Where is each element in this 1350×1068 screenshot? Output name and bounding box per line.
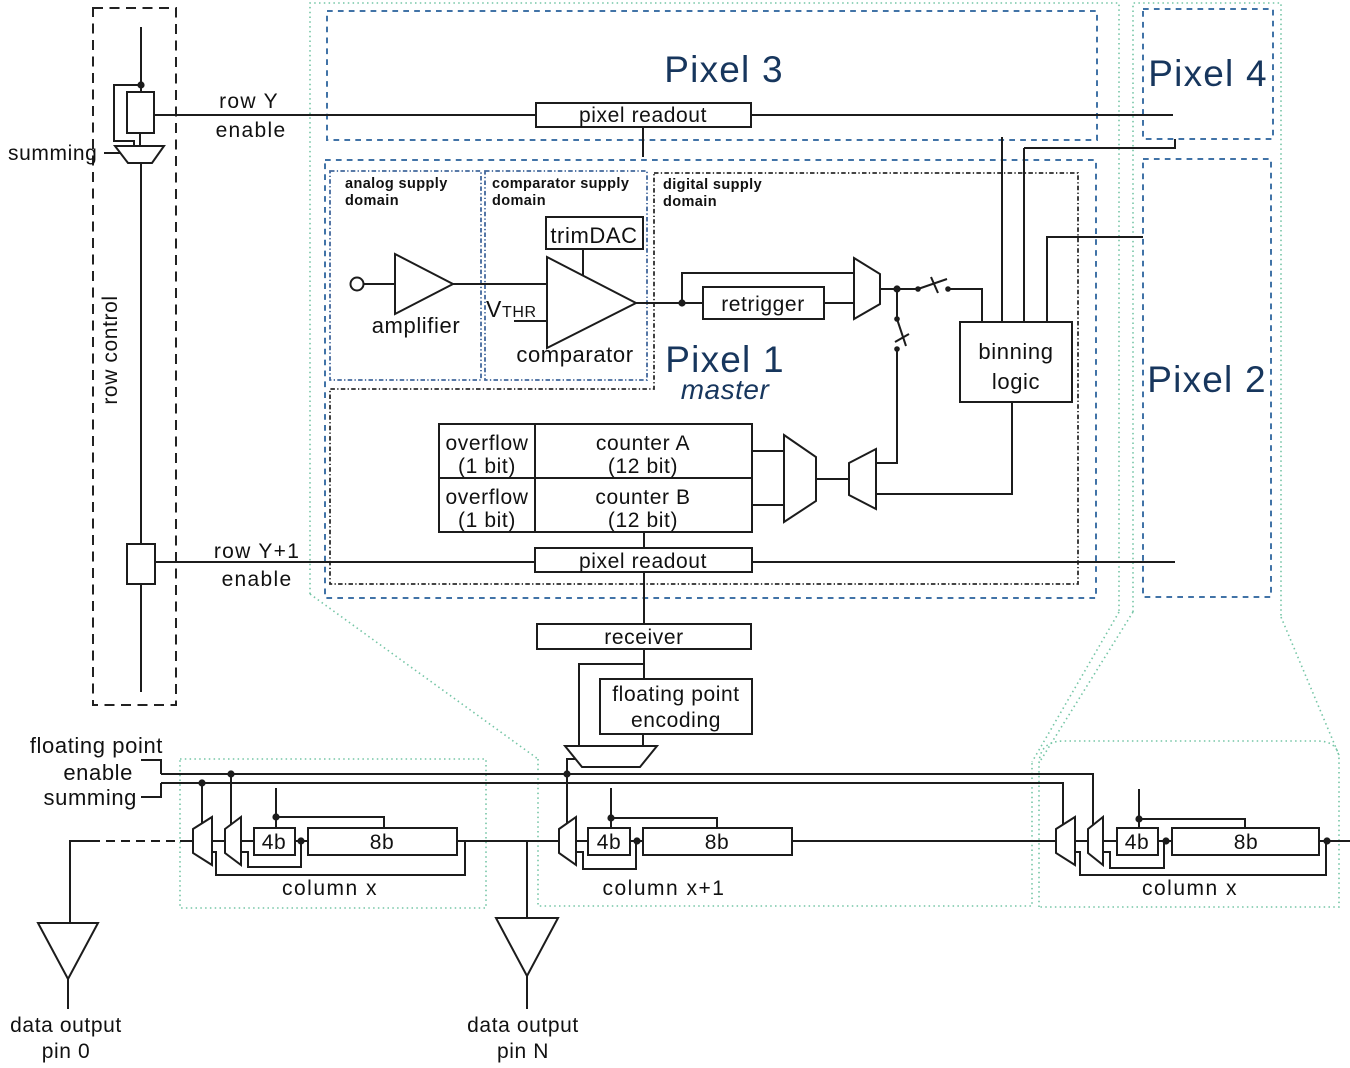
wire row control top vertical — [140, 27, 142, 92]
wire receiver output — [643, 649, 645, 679]
comparator supply domain dash-dot box — [485, 171, 647, 380]
svg-text:row control: row control — [99, 295, 122, 404]
wire binning logic output to counter mux — [876, 402, 1012, 494]
wire row Y enable left — [154, 114, 536, 116]
svg-text:receiver: receiver — [604, 626, 684, 649]
svg-text:retrigger: retrigger — [721, 293, 805, 316]
svg-text:enable: enable — [216, 119, 287, 142]
svg-text:row Y+1: row Y+1 — [214, 540, 300, 563]
svg-text:Pixel 3: Pixel 3 — [664, 49, 783, 90]
wire pad to amplifier — [364, 283, 395, 285]
wire 4b select stub — [275, 788, 277, 828]
wire column x long bypass — [212, 841, 465, 875]
wire mux1 to mux2 right column — [1075, 840, 1088, 842]
svg-text:comparator supply: comparator supply — [492, 176, 629, 192]
Pixel 4 dashed box — [1143, 9, 1273, 139]
node fp enable junction — [563, 770, 570, 777]
receiver box — [537, 624, 751, 649]
mux column x enable — [225, 817, 241, 865]
wire retrigger output — [824, 302, 854, 304]
wire data output pin0 elbow — [70, 841, 91, 923]
svg-text:encoding: encoding — [631, 709, 721, 732]
svg-text:column x: column x — [1142, 877, 1238, 900]
svg-text:amplifier: amplifier — [372, 313, 461, 338]
demux counter route — [849, 449, 876, 509]
wire counter A output — [752, 450, 784, 452]
wire mux to 4b column x+1 — [576, 840, 588, 842]
zoom bracket diagonal middle-left — [1032, 612, 1119, 762]
svg-text:pixel readout: pixel readout — [579, 104, 707, 127]
row Y+1 driver box — [127, 544, 155, 584]
svg-text:data output: data output — [467, 1014, 579, 1037]
svg-text:logic: logic — [992, 369, 1040, 394]
digital supply domain dash-dot L-shape — [330, 173, 1078, 584]
floating point encoding box — [600, 679, 752, 734]
node right column output junction — [1323, 837, 1330, 844]
wire counter B output — [752, 504, 784, 506]
wire counter mux link — [816, 478, 849, 480]
wire row Y+1 enable left — [155, 561, 535, 563]
zoom bracket dotted outline around Pixel 4 and Pixel 2 — [1133, 3, 1281, 617]
binning logic box — [960, 322, 1072, 402]
wire select to 8b right column — [1139, 819, 1245, 828]
wire summing bus — [161, 783, 1063, 826]
wire column x output — [457, 840, 559, 842]
node 4b output junction column x+1 — [633, 837, 640, 844]
wire select to 8b — [276, 817, 384, 828]
svg-text:8b: 8b — [1234, 831, 1259, 854]
column x dotted box (left) — [180, 759, 486, 908]
mux column x+1 — [559, 817, 576, 865]
wire VTHR input — [514, 320, 547, 322]
wire row Y+1 enable right — [752, 561, 1175, 563]
zoom bracket diagonal right — [1281, 617, 1339, 755]
svg-text:domain: domain — [492, 193, 546, 209]
buffer data output pin N — [496, 918, 558, 976]
mux column x summing — [193, 817, 212, 865]
svg-text:enable: enable — [63, 760, 133, 785]
svg-text:8b: 8b — [370, 831, 395, 854]
mux right column summing — [1056, 817, 1075, 865]
switch vertical (open, crossed) — [894, 316, 909, 352]
wire right column long bypass — [1075, 841, 1326, 875]
svg-text:binning: binning — [978, 339, 1053, 364]
register 4b column x — [254, 828, 295, 855]
svg-text:domain: domain — [663, 194, 717, 210]
wire 4b to 8b right column — [1158, 840, 1172, 842]
wire select to 8b column x+1 — [611, 818, 717, 828]
wire right column output — [1319, 840, 1350, 842]
retrigger box — [703, 287, 824, 319]
svg-text:column x+1: column x+1 — [603, 877, 726, 900]
svg-text:floating point: floating point — [30, 733, 163, 758]
wire column x input — [180, 840, 193, 842]
mux retrigger select — [854, 258, 880, 319]
wire fp mux select elbow — [567, 759, 576, 824]
wire mux2 to 4b — [241, 840, 254, 842]
wire binning to Pixel 4 elbow — [1024, 139, 1175, 148]
svg-text:domain: domain — [345, 193, 399, 209]
wire column x+1 short bypass — [576, 841, 636, 869]
svg-text:floating point: floating point — [612, 683, 740, 706]
op-amp comparator — [547, 257, 636, 348]
mux counter select — [784, 435, 816, 522]
Pixel 1 dashed box — [325, 160, 1096, 598]
svg-text:pin 0: pin 0 — [42, 1040, 91, 1063]
wire vertical into binning logic from Pixel 3 — [1001, 137, 1003, 322]
wire mux1 to mux2 — [212, 840, 225, 842]
node 4b select junction — [272, 813, 279, 820]
wire trimDAC to comparator — [582, 249, 584, 277]
Pixel 3 dashed box — [327, 11, 1097, 140]
column x dotted box (right) — [1039, 741, 1339, 907]
wire switch to binning logic — [948, 289, 982, 322]
column x+1 dotted box (middle, open top) — [538, 759, 1032, 906]
zoom bracket dotted outline around Pixel 3 and Pixel 1 — [310, 3, 1119, 612]
wire pixel readout stub down — [642, 127, 644, 157]
svg-text:(12 bit): (12 bit) — [608, 455, 678, 478]
zoom bracket diagonal middle-right — [1039, 612, 1133, 763]
svg-text:overflow: overflow — [446, 486, 529, 509]
wire 4b select stub column x+1 — [610, 788, 612, 828]
register 8b right column — [1172, 828, 1319, 855]
svg-text:comparator: comparator — [516, 342, 633, 367]
svg-text:digital supply: digital supply — [663, 177, 762, 193]
wire right column short bypass — [1103, 841, 1164, 868]
svg-text:trimDAC: trimDAC — [550, 223, 637, 248]
wire pin N — [526, 976, 528, 1009]
node 4b select junction column x+1 — [607, 814, 614, 821]
pixel readout box (Pixel 3) — [536, 103, 751, 127]
wire pin 0 — [67, 979, 69, 1009]
svg-text:data output: data output — [10, 1014, 122, 1037]
wire vertical switch down to counter mux — [876, 349, 897, 463]
node 4b output junction — [297, 837, 304, 844]
node junction above row Y driver — [137, 81, 144, 88]
mux floating point output — [565, 746, 657, 767]
wire retrigger mux output — [880, 288, 918, 290]
svg-text:4b: 4b — [262, 831, 287, 854]
wire comparator output — [636, 302, 703, 304]
svg-text:summing: summing — [44, 785, 137, 810]
node 4b select junction right column — [1135, 815, 1142, 822]
node 4b output junction right column — [1162, 837, 1169, 844]
wire floating point enable label elbow — [141, 760, 161, 774]
wire binning to Pixel 2 elbow — [1047, 237, 1143, 322]
wire driver to summing mux — [139, 133, 141, 147]
svg-text:counter A: counter A — [596, 432, 690, 455]
svg-text:column x: column x — [282, 877, 378, 900]
wire 4b to 8b column x+1 — [630, 840, 643, 842]
svg-text:pixel readout: pixel readout — [579, 550, 707, 573]
wire pixel readout to receiver — [643, 572, 645, 624]
counter table box — [439, 424, 752, 532]
register 4b right column — [1117, 828, 1158, 855]
wire dashed column input continuation — [91, 840, 180, 842]
wire mux2 to 4b right column — [1103, 840, 1117, 842]
wire summing select column x mux 1 — [201, 783, 203, 823]
wire summing mux output down — [140, 163, 142, 544]
wire below row Y+1 driver — [140, 584, 142, 692]
wire data output pin N drop — [526, 841, 528, 918]
svg-text:row Y: row Y — [219, 90, 279, 113]
row Y driver box — [127, 92, 154, 133]
wire column x short bypass — [241, 841, 301, 867]
analog supply domain dash-dot box — [330, 171, 481, 380]
wire receiver bypass to output mux — [579, 664, 644, 746]
wire floating point enable bus — [161, 774, 1093, 826]
wire amplifier to comparator — [453, 283, 547, 285]
wire junction down to vertical switch — [896, 289, 898, 319]
wire row Y enable right — [751, 114, 1173, 116]
svg-text:(1 bit): (1 bit) — [458, 455, 516, 478]
register 4b column x+1 — [588, 828, 630, 855]
row control dashed box — [93, 8, 176, 705]
Pixel 2 dashed box — [1143, 159, 1271, 597]
svg-text:(12 bit): (12 bit) — [608, 509, 678, 532]
op-amp amplifier — [395, 254, 453, 314]
register 8b column x+1 — [643, 828, 792, 855]
buffer data output pin 0 — [38, 923, 98, 979]
svg-text:enable: enable — [222, 568, 293, 591]
amplifier input pad — [351, 278, 364, 291]
svg-text:summing: summing — [8, 142, 97, 165]
wire counter table to pixel readout — [643, 532, 645, 548]
svg-text:Pixel 4: Pixel 4 — [1148, 53, 1267, 94]
svg-text:analog supply: analog supply — [345, 176, 448, 192]
svg-text:pin N: pin N — [497, 1040, 549, 1063]
svg-text:4b: 4b — [597, 831, 622, 854]
svg-text:(1 bit): (1 bit) — [458, 509, 516, 532]
svg-text:4b: 4b — [1125, 831, 1150, 854]
register 8b column x — [308, 828, 457, 855]
svg-text:counter B: counter B — [595, 486, 690, 509]
svg-text:Pixel 2: Pixel 2 — [1147, 359, 1266, 400]
node enable bus tap column x — [227, 770, 234, 777]
wire 4b select stub right column — [1138, 789, 1140, 828]
wire summing label stub — [104, 152, 120, 154]
summing mux (row control) — [115, 146, 164, 163]
svg-text:VTHR: VTHR — [486, 296, 537, 322]
wire comparator to mux top input — [682, 273, 854, 303]
svg-text:overflow: overflow — [446, 432, 529, 455]
svg-text:master: master — [681, 374, 771, 405]
node retrigger mux output junction — [893, 285, 900, 292]
node summing bus tap column x — [198, 779, 205, 786]
switch horizontal (open, crossed) — [915, 277, 951, 293]
trimDAC box — [546, 217, 643, 249]
zoom bracket diagonal left — [310, 594, 538, 759]
wire vertical into binning logic from Pixel 4 elbow — [1023, 148, 1025, 322]
svg-text:8b: 8b — [705, 831, 730, 854]
pixel readout box (Pixel 1) — [535, 548, 752, 572]
node comparator output junction — [678, 299, 685, 306]
wire bypass around row Y driver — [114, 85, 141, 147]
mux right column enable — [1088, 817, 1103, 865]
wire summing label elbow — [141, 783, 161, 797]
wire enable select column x mux 2 — [230, 774, 232, 825]
wire 4b to 8b — [295, 840, 308, 842]
wire encoding output — [642, 734, 644, 746]
wire column x+1 output — [792, 840, 1056, 842]
